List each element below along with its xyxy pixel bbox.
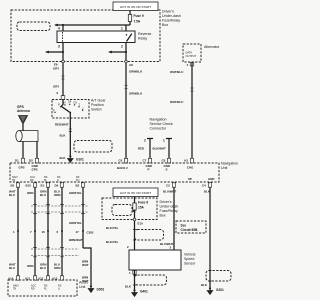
- wire B5 WHT/BLU to audio A14: [9, 187, 19, 276]
- svg-text:GRN/YEL: GRN/YEL: [69, 191, 82, 195]
- svg-text:R: R: [58, 103, 60, 107]
- pin A12: [38, 276, 50, 291]
- svg-text:GND: GND: [208, 177, 214, 181]
- svg-text:BLK/YEL: BLK/YEL: [106, 240, 119, 244]
- wire D9 BLU/ORN to audio A13: [54, 187, 63, 276]
- svg-text:Connector: Connector: [150, 127, 167, 131]
- svg-text:C302: C302: [87, 231, 94, 235]
- svg-text:BLU/WHT: BLU/WHT: [160, 242, 174, 246]
- svg-text:GRN/BLK: GRN/BLK: [129, 70, 143, 74]
- wire switch common to ground: [55, 118, 72, 160]
- svg-text:Navigation: Navigation: [221, 162, 238, 166]
- svg-text:P: P: [148, 168, 150, 172]
- svg-text:GRN/BLK: GRN/BLK: [129, 92, 143, 96]
- svg-text:LI: LI: [57, 179, 59, 182]
- svg-text:BLU: BLU: [40, 266, 46, 270]
- svg-text:DATA: DATA: [186, 51, 193, 55]
- pin D9: [55, 183, 64, 188]
- svg-text:BLU: BLU: [9, 193, 15, 197]
- svg-text:Fuse 6: Fuse 6: [138, 201, 148, 205]
- pin C7: [143, 158, 152, 171]
- svg-text:Navigation: Navigation: [150, 118, 167, 122]
- connector at fuse box edge E10: [133, 218, 143, 225]
- wire GRY relay to gear switch: [53, 63, 65, 100]
- alternator (dashed box): [183, 44, 220, 62]
- svg-text:ORN: ORN: [54, 193, 60, 197]
- svg-text:Relay: Relay: [138, 36, 147, 40]
- svg-text:Fuse 9: Fuse 9: [134, 14, 144, 18]
- power label HOT IN ON OR START (bottom): [113, 188, 158, 197]
- svg-text:Fuse/Relay: Fuse/Relay: [162, 19, 180, 23]
- A/T gear position switch S1: [52, 99, 106, 119]
- svg-text:GRY: GRY: [53, 67, 59, 71]
- svg-text:BLK: BLK: [60, 134, 67, 138]
- svg-text:Antenna: Antenna: [17, 109, 30, 113]
- svg-text:Driver's: Driver's: [160, 200, 172, 204]
- svg-text:Unit: Unit: [79, 285, 85, 289]
- svg-text:TB: TB: [12, 179, 15, 182]
- svg-text:Position: Position: [91, 103, 104, 107]
- svg-text:SP: SP: [188, 177, 192, 181]
- wire B2 GRN/YEL via C302 to ground G501: [69, 187, 94, 286]
- wire GPS core to D1: [22, 142, 24, 159]
- fuse F6 15A: [133, 197, 149, 220]
- wire BLK/YEL fuse6 to VSS pin2: [106, 221, 135, 250]
- wire B10 ORN to audio A11: [27, 187, 36, 276]
- svg-text:BLK/YEL: BLK/YEL: [106, 226, 119, 230]
- svg-text:A8: A8: [129, 63, 133, 67]
- svg-text:BLU: BLU: [9, 266, 15, 270]
- svg-text:GPS: GPS: [19, 166, 25, 170]
- pin B10: [26, 183, 37, 188]
- svg-text:BACK 2: BACK 2: [117, 166, 128, 170]
- nav unit bottom row signal names: [12, 176, 214, 182]
- svg-text:GRN/YEL: GRN/YEL: [69, 221, 82, 225]
- svg-text:A3: A3: [184, 159, 188, 163]
- svg-text:Speed: Speed: [184, 257, 194, 261]
- svg-text:ORN: ORN: [27, 264, 33, 268]
- svg-text:B2: B2: [76, 184, 80, 188]
- wire fuse9 output bus: [54, 24, 130, 27]
- svg-text:D9: D9: [55, 184, 59, 188]
- pin C4: [202, 183, 212, 188]
- svg-text:Reverse: Reverse: [138, 32, 151, 36]
- svg-text:G501: G501: [97, 288, 105, 292]
- svg-text:G401: G401: [140, 290, 148, 294]
- svg-text:WHT/BLU: WHT/BLU: [170, 70, 183, 74]
- ground G501: [88, 285, 104, 292]
- fuse/relay box (Driver's Under-dash, bottom): [102, 198, 178, 220]
- svg-text:A14: A14: [8, 277, 14, 281]
- svg-text:BRN/WHT: BRN/WHT: [69, 238, 83, 242]
- GPS antenna: [17, 105, 30, 131]
- svg-text:Unit: Unit: [221, 166, 227, 170]
- pin A14: [8, 276, 20, 291]
- wire B1 ORN/BLU to audio A12: [40, 187, 49, 276]
- wire GPS shield to D2: [36, 142, 38, 159]
- svg-text:Alternator: Alternator: [204, 45, 220, 49]
- svg-text:RD: RD: [30, 179, 34, 182]
- svg-text:C4: C4: [202, 184, 206, 188]
- svg-text:BLK: BLK: [60, 156, 67, 160]
- svg-text:A13: A13: [52, 277, 58, 281]
- svg-text:16: 16: [42, 230, 46, 234]
- svg-text:G201: G201: [216, 288, 224, 292]
- svg-text:D4: D4: [68, 100, 72, 104]
- svg-text:RD: RD: [31, 288, 35, 291]
- svg-text:PU: PU: [76, 179, 80, 182]
- svg-text:B5: B5: [11, 184, 15, 188]
- power label HOT IN ON OR START (top): [113, 2, 158, 11]
- svg-text:17: 17: [76, 230, 80, 234]
- svg-text:7.5A: 7.5A: [134, 20, 141, 24]
- svg-text:B1: B1: [41, 184, 45, 188]
- svg-text:Sensor: Sensor: [184, 262, 196, 266]
- svg-text:GRY: GRY: [53, 85, 59, 89]
- svg-text:A12: A12: [38, 277, 44, 281]
- pin B2: [76, 183, 85, 188]
- svg-text:C2: C2: [166, 184, 170, 188]
- svg-text:N: N: [64, 100, 66, 104]
- wire pin3 with off-page arrow: [45, 43, 64, 62]
- see circuit reference box: [176, 221, 206, 233]
- svg-text:2: 2: [144, 139, 146, 143]
- svg-text:RED/WHT: RED/WHT: [55, 122, 69, 126]
- svg-text:ORN: ORN: [54, 266, 60, 270]
- svg-text:C6: C6: [119, 159, 123, 163]
- wire WHT/BLU alternator to nav unit A3: [170, 62, 194, 158]
- svg-text:Under-dash: Under-dash: [162, 14, 181, 18]
- svg-text:D1: D1: [15, 159, 19, 163]
- svg-text:Box: Box: [162, 23, 168, 27]
- switch contacts P R N D4 D3 2 1: [53, 100, 84, 119]
- pin D1: [15, 158, 25, 169]
- pin B1: [41, 183, 50, 188]
- svg-text:1: 1: [121, 27, 123, 31]
- svg-text:A/T Gear: A/T Gear: [91, 99, 106, 103]
- pin C2: [166, 183, 176, 188]
- svg-text:OUTPUT: OUTPUT: [186, 54, 197, 58]
- svg-text:1: 1: [163, 139, 165, 143]
- svg-text:C8: C8: [162, 159, 166, 163]
- inline connector row 2: [31, 248, 79, 257]
- svg-text:Audio: Audio: [79, 281, 88, 285]
- coax shield: [16, 131, 38, 142]
- pin A13: [52, 276, 64, 291]
- svg-text:BLU: BLU: [40, 193, 46, 197]
- svg-text:GPS: GPS: [32, 168, 38, 172]
- svg-text:D2: D2: [29, 159, 33, 163]
- pin C6: [117, 158, 128, 170]
- svg-text:G101: G101: [76, 158, 84, 162]
- svg-text:Service Check: Service Check: [150, 122, 173, 126]
- svg-text:BLU/WHT: BLU/WHT: [163, 190, 177, 194]
- svg-text:See: See: [181, 224, 187, 228]
- svg-text:2: 2: [121, 45, 123, 49]
- svg-text:Vehicle: Vehicle: [184, 253, 196, 257]
- svg-text:3: 3: [58, 45, 60, 49]
- ground G401: [132, 289, 148, 296]
- wire BLU/WHT nav C2 to VSS pin3: [160, 187, 177, 250]
- reference bubble on ground wire: [74, 141, 112, 153]
- svg-text:BLK: BLK: [204, 190, 211, 194]
- svg-text:C7: C7: [143, 159, 147, 163]
- svg-text:WHT/BLU: WHT/BLU: [170, 100, 183, 104]
- pin B5: [11, 183, 20, 188]
- svg-text:HOT IN ON OR START: HOT IN ON OR START: [120, 5, 151, 9]
- inline connector row 1: [31, 205, 88, 214]
- svg-text:Circuit 69B.: Circuit 69B.: [181, 228, 199, 232]
- svg-text:Driver's: Driver's: [162, 10, 174, 14]
- pin A3: [184, 158, 194, 169]
- svg-text:ORN: ORN: [27, 191, 33, 195]
- svg-text:HOT IN ON OR START: HOT IN ON OR START: [120, 191, 151, 195]
- ground G201: [207, 287, 224, 294]
- reference bubble in fuse box: [112, 205, 135, 216]
- svg-text:B10: B10: [26, 184, 32, 188]
- reference bubble on VSS ground wire: [133, 275, 167, 285]
- svg-text:S: S: [166, 168, 168, 172]
- wire pin1: [121, 25, 126, 31]
- svg-text:4: 4: [58, 27, 60, 31]
- audio unit (dashed box): [8, 280, 88, 296]
- reference bubble on C4 BLK wire: [206, 271, 231, 282]
- svg-text:RED: RED: [138, 147, 144, 151]
- reference bubble (to other circuits): [17, 22, 50, 31]
- svg-text:E10: E10: [138, 222, 144, 226]
- navigation service check connector: [138, 118, 173, 159]
- wire pin2 with off-page arrow: [108, 43, 127, 62]
- wire VSS pin1 BLK to ground G401: [125, 270, 136, 290]
- fuse/relay box (Driver's Under-dash Fuse/Relay Box, top): [11, 10, 181, 62]
- connector at fuse box edge (GRY wire): [53, 60, 64, 70]
- svg-text:BLK: BLK: [201, 283, 208, 287]
- pin D2: [29, 158, 39, 171]
- node pin4 junction: [58, 24, 64, 31]
- pin A11: [25, 276, 37, 291]
- svg-text:WHT: WHT: [82, 263, 89, 267]
- reference bubble on BLK/YEL wire: [133, 230, 164, 241]
- navigation unit (dashed box): [10, 162, 238, 183]
- fuse F9 7.5A: [128, 11, 144, 26]
- svg-text:15A: 15A: [138, 206, 145, 210]
- svg-text:A11: A11: [25, 277, 31, 281]
- svg-text:BLK/WHT: BLK/WHT: [153, 147, 167, 151]
- svg-text:Switch: Switch: [91, 108, 102, 112]
- pin C8: [162, 158, 171, 171]
- svg-text:TB: TB: [13, 288, 16, 291]
- wire GRN/BLK relay to nav unit C6: [124, 63, 143, 158]
- svg-text:LI: LI: [58, 288, 60, 291]
- connector at fuse box edge (GRN/BLK wire): [125, 60, 143, 73]
- wire BLK nav C4 to ground G201: [201, 187, 211, 288]
- ground G101: [68, 155, 85, 162]
- svg-text:BLK: BLK: [125, 285, 132, 289]
- svg-text:D3: D3: [74, 100, 78, 104]
- vehicle speed sensor: [129, 250, 196, 270]
- svg-text:Under-dash: Under-dash: [160, 205, 179, 209]
- svg-text:Box: Box: [160, 214, 166, 218]
- svg-text:Fuse/Relay: Fuse/Relay: [160, 209, 178, 213]
- relay K1 Reverse Relay: [57, 31, 151, 43]
- svg-text:CHG: CHG: [187, 166, 194, 170]
